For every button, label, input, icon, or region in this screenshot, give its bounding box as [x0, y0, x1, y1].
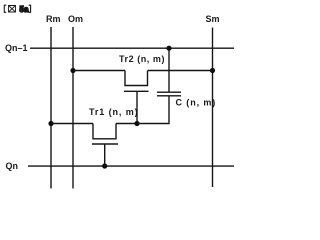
- junction dot Om / Tr2 wire: [70, 68, 75, 73]
- svg-text:Sm: Sm: [206, 14, 220, 24]
- wire from Rm to Tr1 source: [51, 123, 93, 125]
- capacitor C(n,m) plates: [157, 92, 181, 96]
- transistor Tr2 channel: [125, 71, 148, 86]
- svg-text:Tr2 (n, m): Tr2 (n, m): [119, 54, 165, 64]
- svg-text:Qn–1: Qn–1: [5, 43, 28, 53]
- junction dot Qn / Tr1 gate: [102, 163, 107, 168]
- wire Sm vertical column line: [212, 28, 214, 188]
- svg-text:Om: Om: [68, 14, 83, 24]
- junction dot Sm / Tr2 wire: [210, 68, 215, 73]
- wire Qn horizontal row line: [28, 165, 234, 167]
- svg-text:C (n, m): C (n, m): [176, 98, 217, 108]
- wire from Om to Tr2 drain: [73, 70, 125, 72]
- junction dot Rm / Tr1 wire: [48, 121, 53, 126]
- svg-text:Qn: Qn: [6, 161, 19, 171]
- transistor Tr1 gate bar: [92, 143, 118, 145]
- figure label [図 5a]: [4, 5, 30, 14]
- wire from Tr1 drain to storage node: [116, 123, 137, 125]
- wire capacitor top lead to Qn-1: [168, 48, 170, 92]
- svg-text:5a: 5a: [20, 5, 29, 14]
- wire from Tr2 source to Sm: [148, 70, 213, 72]
- wire capacitor bottom lead to storage node: [137, 96, 169, 124]
- wire Rm vertical column line: [50, 27, 52, 189]
- wire Om vertical column line: [72, 27, 74, 189]
- wire Tr2 gate lead to storage node: [136, 91, 138, 123]
- junction dot storage node: [134, 121, 139, 126]
- wire Tr1 gate lead to Qn: [104, 144, 106, 166]
- wire Qn-1 horizontal row line: [30, 47, 234, 49]
- junction dot Qn-1 / capacitor lead: [166, 46, 171, 51]
- svg-text:Tr1 (n, m): Tr1 (n, m): [89, 107, 139, 117]
- transistor Tr2 gate bar: [124, 90, 149, 92]
- transistor Tr1 channel: [93, 124, 116, 139]
- svg-text:Rm: Rm: [46, 14, 61, 24]
